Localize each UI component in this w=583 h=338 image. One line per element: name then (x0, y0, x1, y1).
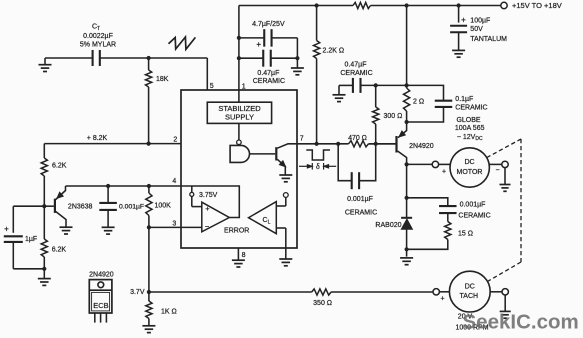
dashed coupling motor-shaft (487, 139, 521, 158)
node junction emitter (405, 120, 409, 124)
svg-text:DC: DC (465, 283, 475, 290)
wire pin 1 vertical (238, 6, 240, 91)
svg-text:+: + (4, 225, 9, 234)
ground (Q1 collector) (60, 226, 73, 228)
capacitor 0.47uF ceramic (bias) (339, 84, 353, 86)
capacitor C_T 0.0022uF 5% MYLAR (92, 50, 94, 66)
transistor Q2 base wire (369, 143, 396, 145)
node junction 1uF/6.2K bottom (42, 267, 46, 271)
wire 3.75V to + input (191, 196, 193, 206)
ground (caps right) (291, 67, 304, 69)
svg-text:CERAMIC: CERAMIC (253, 78, 285, 85)
transistor Q1 2N3638 base wire (44, 205, 54, 207)
node junction 300ohm/pin7 (374, 142, 378, 146)
svg-text:4.7µF/25V: 4.7µF/25V (252, 21, 285, 28)
wire motor + lead (439, 163, 451, 165)
svg-text:100µF: 100µF (470, 17, 490, 24)
svg-text:4: 4 (172, 178, 176, 185)
svg-text:5% MYLAR: 5% MYLAR (80, 42, 116, 49)
wire pin3 to - input (181, 226, 202, 228)
capacitor 100uF 50V TANTALUM (458, 6, 460, 23)
dashed coupling shaft-tach (488, 262, 521, 281)
wire +V rail (239, 5, 353, 7)
resistor 6.2K lower (43, 206, 45, 239)
DC TACH circle (449, 271, 490, 312)
resistor 350 ohm (312, 289, 331, 295)
node junction 4.7uF (237, 36, 241, 40)
svg-text:50V: 50V (470, 26, 483, 33)
DC MOTOR circle (450, 148, 489, 187)
svg-text:0.001µF: 0.001µF (119, 203, 144, 210)
wire rail to 2ohm (406, 6, 408, 89)
STABILIZED SUPPLY box (207, 102, 271, 123)
resistor 6.2K upper (43, 144, 45, 158)
svg-text:CERAMIC: CERAMIC (340, 70, 372, 77)
svg-text:+: + (440, 296, 444, 303)
2N4920 package tab divider (89, 289, 112, 291)
svg-text:+ 8.2K: + 8.2K (87, 135, 108, 142)
svg-text:+: + (442, 168, 446, 175)
svg-text:MOTOR: MOTOR (457, 169, 483, 176)
wire pin 2 (+8.2K node) (44, 143, 181, 145)
wire collector down (406, 164, 408, 217)
svg-text:2.2K Ω: 2.2K Ω (323, 48, 345, 55)
capacitor 0.1uF ceramic (407, 85, 444, 100)
transistor Qint emitter with arrow (277, 159, 285, 174)
svg-text:8: 8 (242, 252, 246, 259)
gate (AND shape) (230, 145, 249, 162)
svg-text:1K Ω: 1K Ω (161, 308, 177, 315)
node junction 18K/pin2 wire (147, 142, 151, 146)
wire tach - down (504, 295, 506, 311)
op-amp ERROR (202, 202, 230, 232)
svg-text:SeekIC.com: SeekIC.com (463, 310, 579, 333)
svg-text:RAB020: RAB020 (375, 222, 401, 229)
node junction snubber left (336, 142, 340, 146)
terminal tach - (502, 289, 508, 295)
transistor Q2 emitter with arrow (398, 122, 407, 138)
delta width marks (311, 163, 313, 170)
gate inverter bubble (237, 140, 242, 145)
svg-text:100A 565: 100A 565 (455, 125, 485, 132)
wire diode to ground (406, 229, 408, 256)
resistor 18K (148, 58, 150, 70)
svg-text:2: 2 (173, 137, 177, 144)
svg-text:2N4920: 2N4920 (89, 271, 114, 278)
node junction 300ohm top (374, 83, 378, 87)
svg-text:2 Ω: 2 Ω (413, 98, 424, 105)
svg-text:18K: 18K (156, 76, 169, 83)
svg-text:1µF: 1µF (25, 236, 37, 243)
wire supply to gate (238, 123, 240, 140)
ground (0.47uF bias) (338, 85, 340, 94)
ground (pin 8) (232, 259, 245, 261)
node junction 2.2K/pin7 (315, 142, 319, 146)
ground (100uF) (458, 32, 460, 50)
svg-text:CERAMIC: CERAMIC (345, 210, 377, 217)
resistor 100K (148, 186, 150, 193)
transistor Q1 emitter with arrow (56, 186, 66, 200)
resistor 2.2K (316, 6, 318, 41)
wire 3.7V to tach (149, 291, 312, 293)
svg-text:SUPPLY: SUPPLY (225, 113, 254, 122)
ground (1K bottom) (142, 325, 155, 327)
svg-text:TACH: TACH (460, 293, 479, 300)
2N4920 package outline (89, 280, 112, 313)
wire pin4 feedback (181, 186, 239, 218)
wire 4.7uF right down (296, 38, 298, 68)
wire pin1 to supply box (238, 90, 240, 102)
transistor Q2 2N4920 bar (395, 136, 397, 153)
node junction rail/2ohm line (405, 3, 409, 7)
svg-text:5: 5 (210, 83, 214, 90)
svg-text:0.47µF: 0.47µF (257, 70, 279, 77)
wire C_T left (45, 57, 93, 59)
node junction snubber2 top (405, 196, 409, 200)
terminal +15V (501, 2, 507, 8)
wire motor - lead (489, 163, 501, 165)
wire pin 7 (297, 143, 349, 145)
transistor Q1 2N3638 bar (54, 199, 56, 213)
2N4920 package legs (94, 313, 96, 322)
svg-text:0.001µF: 0.001µF (347, 196, 373, 203)
resistor 1K (148, 292, 150, 301)
node base junction 2N3638 (42, 204, 46, 208)
node junction 0.47uF (237, 56, 241, 60)
wire C_L output to ground (276, 227, 286, 229)
svg-text:CERAMIC: CERAMIC (458, 212, 490, 219)
svg-text:100K: 100K (155, 202, 172, 209)
resistor 470 ohm (349, 141, 369, 147)
wire tach + lead (439, 291, 449, 293)
ground (diode) (400, 257, 413, 259)
svg-text:−: − (205, 222, 210, 231)
node junction rail/2.2K (315, 3, 319, 7)
svg-text:STABILIZED: STABILIZED (218, 104, 261, 113)
ground (C_L) (279, 258, 292, 260)
capacitor 0.47uF ceramic (pin1) (239, 57, 263, 59)
resistor 300 ohm (375, 85, 377, 107)
resistor 15 ohm (445, 222, 451, 240)
transistor Q2 collector (398, 151, 407, 164)
svg-text:DC: DC (464, 159, 474, 166)
ground (Qint emitter) (279, 174, 292, 176)
resistor 2 ohm (404, 88, 410, 111)
terminal C_L top (283, 193, 288, 198)
terminal motor + (432, 161, 438, 167)
ground (C_T left) (44, 58, 46, 65)
node junction 0.001uF (106, 184, 110, 188)
svg-text:0.47µF: 0.47µF (345, 61, 367, 68)
svg-text:0.001µF: 0.001µF (460, 202, 486, 209)
node junction caps right (295, 56, 299, 60)
svg-text:470 Ω: 470 Ω (348, 135, 367, 142)
svg-text:7: 7 (300, 135, 304, 142)
wire C_L terminal to amp (285, 197, 287, 206)
wire pin 8 stub (237, 248, 239, 260)
pulse waveform symbol (306, 150, 330, 160)
svg-text:ERROR: ERROR (224, 227, 249, 234)
resistor (rail, unlabeled) (353, 2, 371, 8)
svg-text:2N3638: 2N3638 (68, 203, 93, 210)
svg-text:3: 3 (172, 220, 176, 227)
2N4920 package inner outline (92, 292, 110, 311)
ground (motor -) (504, 168, 506, 185)
transistor Qint bar (275, 147, 277, 160)
svg-text:0.0022µF: 0.0022µF (83, 33, 113, 40)
svg-text:TANTALUM: TANTALUM (470, 36, 507, 43)
node junction C_T/18K (147, 56, 151, 60)
svg-text:−: − (495, 167, 499, 174)
svg-text:+: + (461, 15, 466, 24)
svg-text:δ: δ (316, 162, 320, 171)
capacitor 0.001uF (pin4) (107, 186, 109, 203)
wire 1uF bottom branch (12, 242, 14, 269)
diode CR1 RAB020 (401, 217, 412, 219)
capacitor 0.001uF ceramic (pin7) (338, 144, 352, 181)
capacitor 0.001uF ceramic (motor) (407, 198, 448, 206)
transistor Qint collector to pin7 (277, 144, 297, 148)
wire 1uF top branch (13, 205, 44, 207)
wire collector to motor (407, 163, 433, 165)
node junction 0.47uF/2ohm (405, 83, 409, 87)
svg-text:CERAMIC: CERAMIC (455, 105, 487, 112)
svg-text:300 Ω: 300 Ω (384, 113, 403, 120)
node junction rail/100uF (457, 3, 461, 7)
wire tach - lead (490, 291, 502, 293)
svg-text:+15V TO +18V: +15V TO +18V (512, 1, 562, 10)
wire 100K bottom to 3.7V node (148, 227, 150, 292)
node junction 100K bottom (147, 225, 151, 229)
svg-text:ECB: ECB (93, 301, 108, 310)
2N4920 package hole (98, 282, 104, 288)
wire C_T right to pin5 corner (100, 57, 208, 59)
ground (0.001uF pin4) (107, 210, 109, 227)
terminal 3.75V reference (191, 186, 193, 192)
ground (6.2K bottom) (43, 269, 45, 279)
node junction snubber2 bottom (405, 247, 409, 251)
svg-text:GLOBE: GLOBE (456, 117, 480, 124)
wire pin 4 (66, 185, 182, 187)
svg-text:− 12VDC: − 12VDC (457, 134, 483, 142)
wire pin 3 (149, 226, 181, 228)
svg-text:3.75V: 3.75V (199, 192, 218, 199)
svg-text:15 Ω: 15 Ω (458, 230, 473, 237)
node junction 100K top (147, 184, 151, 188)
svg-text:+: + (256, 40, 261, 49)
terminal motor - (502, 161, 508, 167)
sawtooth waveform symbol (169, 37, 196, 49)
capacitor 4.7uF/25V (239, 37, 264, 39)
capacitor C 1uF electrolytic (4, 235, 23, 237)
wire gate output (250, 153, 276, 155)
terminal tach + (433, 289, 439, 295)
svg-text:6.2K: 6.2K (52, 247, 67, 254)
svg-text:6.2K: 6.2K (52, 163, 67, 170)
svg-text:+: + (205, 204, 210, 213)
dashed coupling shaft (520, 139, 522, 262)
svg-text:350 Ω: 350 Ω (313, 300, 332, 307)
svg-text:0.1µF: 0.1µF (455, 96, 473, 103)
svg-text:3.7V: 3.7V (130, 289, 145, 296)
svg-text:2N4920: 2N4920 (409, 143, 434, 150)
op-amp C_L (249, 202, 277, 234)
node junction collector (405, 162, 409, 166)
IC block U1 outline (181, 90, 297, 248)
transistor Q1 collector (56, 212, 66, 227)
node junction 3.7V (147, 290, 151, 294)
ground (tach -) (500, 310, 511, 312)
